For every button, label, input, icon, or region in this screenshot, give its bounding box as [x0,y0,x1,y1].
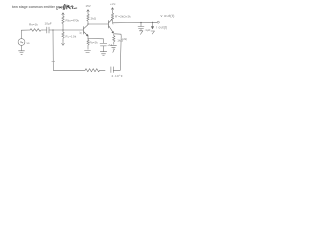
label RC1 value [91,17,97,21]
wire C1 to Q1 base [49,29,83,31]
label Cin value [45,22,52,26]
svg-text:1kΩ: 1kΩ [117,39,123,43]
transistor Q2 [109,19,114,34]
wire emitter to CE branch [88,39,104,44]
wire Rs to C1 [43,29,47,31]
ground arrow under R2 [62,41,65,46]
svg-text:(2k): (2k) [122,37,127,41]
label vcc1 [86,4,91,8]
wire source to ground [21,45,23,50]
svg-text:R₂≈10k: R₂≈10k [66,35,77,39]
ground under CE [100,52,106,56]
ground under RE2 [111,45,117,52]
wire source vertical [21,30,23,38]
label re2 extra scribble [122,37,127,41]
wire feedback bottom [53,69,85,71]
resistor Rs [30,29,42,32]
svg-text:Rs=1k: Rs=1k [29,23,38,27]
wire interstage [88,23,109,25]
label RC2 value [115,15,131,19]
svg-text:15V: 15V [86,4,91,8]
resistor R2 (lower bias) [62,30,64,40]
tick on feedback vertical [52,60,55,62]
resistor RC1 [87,14,89,24]
resistor RE1 [87,39,89,50]
label RE2 value [117,39,123,43]
wire output line [113,21,157,24]
junction Q1 collector [87,23,88,24]
resistor Rf feedback [85,69,105,72]
ground under RE1 [85,50,91,52]
vcc arrow for RC1 [87,10,89,14]
transistor Q1 [84,25,89,36]
resistor R1 (upper bias) [62,16,64,30]
svg-text:vs: vs [27,41,31,45]
svg-text:2kΩ: 2kΩ [91,17,97,21]
svg-text:.1µF: .1µF [145,28,151,32]
wire feedback vertical left [52,30,54,70]
svg-text:10µF: 10µF [45,22,52,26]
output terminal circle [157,21,159,23]
ground under source [19,51,25,55]
label iout [157,25,168,29]
capacitor Cf feedback [111,67,113,73]
svg-text:+1k: +1k [107,43,112,47]
svg-text:v out(t): v out(t) [161,14,176,18]
capacitor CE bypass [100,43,107,51]
junction CL [140,22,141,23]
ground under CL [139,31,143,35]
label vs [27,41,31,45]
title handwritten text [12,5,71,9]
svg-text:2·10⁶F: 2·10⁶F [112,74,123,78]
source VS circle [18,39,25,46]
node A junction dot [52,29,53,30]
resistor RE2 [113,34,115,44]
label R2 value [66,35,77,39]
svg-text:Rɛ=2k: Rɛ=2k [90,41,99,45]
label vcc2 [110,2,116,6]
wire input to Rs [22,29,31,31]
vcc arrow for RC2 [111,8,113,13]
label CE plus [107,43,112,47]
junction load [152,22,153,23]
label vout [161,14,176,18]
dark scribble annotation [57,5,77,10]
label Cf value [112,74,123,78]
svg-text:twn stage common emitter amp y: twn stage common emitter amp y; fy [12,5,71,9]
label CL value [145,28,151,32]
load arrow branch [151,22,155,34]
label R1 value [66,19,80,23]
capacitor CL (output) [138,23,144,31]
junction R1 base [62,29,63,30]
label Rs value [29,23,38,27]
svg-text:+Vc: +Vc [110,2,116,6]
stray mark near Q1 base [80,32,82,34]
wire feedback right up [113,34,121,71]
vcc arrow for R1 [62,13,64,16]
svg-text:i out(t): i out(t) [157,25,168,29]
capacitor C1 (input coupling) [47,27,49,33]
svg-text:Rb₁≈470k: Rb₁≈470k [66,19,80,23]
wire Q1 emitter down [87,36,89,39]
resistor RC2 [111,13,113,24]
svg-text:R˜=2kΩ+2k: R˜=2kΩ+2k [115,15,131,19]
label RE1 value [90,41,99,45]
